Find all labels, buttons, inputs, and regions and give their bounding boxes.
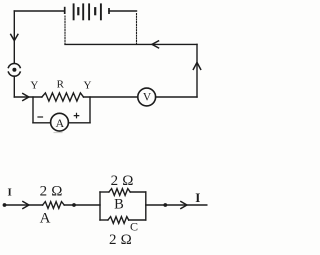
battery B1 (cells) (65, 3, 109, 20)
wire left vertical upper (13, 11, 15, 62)
faint print artifact (54, 132, 62, 134)
svg-text:A: A (55, 116, 64, 130)
plug key K top arc (8, 63, 20, 67)
wire ammeter branch right (69, 122, 91, 124)
parallel box right vertical (145, 192, 147, 220)
minus terminal label (38, 116, 43, 118)
svg-text:2 Ω: 2 Ω (40, 184, 63, 200)
node Y2 branch vertical (89, 97, 91, 123)
resistor A zigzag 2ohm (43, 202, 65, 209)
wire bottom branch left (100, 219, 108, 221)
arrow right on bottom-left wire (23, 202, 29, 209)
dotted wire right of battery down (136, 14, 138, 44)
wire top branch left (100, 191, 109, 193)
wire ammeter branch left (33, 122, 51, 124)
parallel box left vertical (99, 192, 101, 220)
wire main line right segment (156, 96, 197, 98)
wire to parallel box (64, 204, 100, 206)
arrow up on right vertical (193, 63, 200, 70)
svg-text:2 Ω: 2 Ω (111, 173, 134, 189)
wire bottom-left segment (5, 204, 43, 206)
svg-text:R: R (57, 79, 65, 91)
svg-text:Y: Y (84, 79, 92, 91)
plus terminal label (74, 113, 78, 117)
svg-text:V: V (143, 92, 152, 104)
node Y1 branch vertical (32, 97, 34, 123)
arrow right on main line (23, 94, 29, 101)
resistor B zigzag 2ohm (109, 189, 130, 196)
svg-text:I: I (7, 187, 11, 199)
wire top-left horizontal (14, 10, 64, 12)
plug key K bottom arc (8, 72, 20, 76)
wire bottom-right segment (146, 204, 207, 206)
wire top return line (65, 43, 197, 45)
svg-text:2 Ω: 2 Ω (109, 232, 132, 248)
wire left vertical lower (13, 77, 15, 97)
voltmeter V1 circle (138, 88, 156, 106)
wire right vertical (196, 44, 198, 97)
svg-text:A: A (40, 210, 51, 226)
arrow left on return line (152, 41, 159, 48)
arrow right on bottom-right wire (181, 202, 187, 209)
wire main line left segment (14, 96, 42, 98)
dotted wire left of battery down (64, 16, 66, 44)
arrow down on left vertical (11, 34, 18, 40)
wire top branch right (130, 191, 146, 193)
svg-text:I: I (195, 190, 200, 205)
ammeter A1 circle (51, 113, 69, 131)
plug key K dot (12, 68, 16, 72)
wire bottom branch right (129, 219, 146, 221)
svg-text:B: B (114, 196, 124, 212)
node dot start (bottom circuit) (3, 203, 7, 207)
svg-text:Y: Y (30, 79, 38, 91)
resistor R zigzag (42, 93, 84, 101)
wire battery right (109, 10, 137, 12)
resistor C zigzag 2ohm (108, 217, 129, 224)
node dot after resistor A (72, 203, 76, 207)
wire main line middle segment (84, 96, 138, 98)
node dot after box (163, 203, 167, 207)
